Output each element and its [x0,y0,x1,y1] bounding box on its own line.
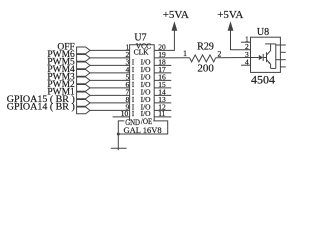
U8 internal bottom link [271,67,276,69]
svg-text:+5VA: +5VA [217,9,243,21]
wire GPIOA15 to U7 pin 8 [90,102,130,104]
resistor R29 zigzag [190,55,216,62]
connector flag PWM5 [77,62,90,69]
svg-text:R29: R29 [197,41,214,52]
svg-text:4504: 4504 [251,73,275,87]
wire PWM6 to U7 pin 2 [90,57,130,59]
connector flag PWM3 [77,77,90,84]
U8 internal right rail [275,44,277,69]
wire U7 pin 14 stub [154,94,171,96]
wire U8 pin 4 stub [241,64,251,66]
wire U7 pin 17 stub [154,72,171,74]
svg-text:U8: U8 [257,27,269,38]
wire U7 pin 13 stub [154,102,171,104]
wire PWM1 to U7 pin 7 [90,94,130,96]
wire U7 pin 11 stub [154,116,171,118]
U8 internal transistor base bar [266,52,268,62]
power +5VA arrow 2 [228,21,234,31]
svg-text:GPIOA14 ( BR ): GPIOA14 ( BR ) [7,101,75,112]
connector flag OFF [77,47,90,54]
U8 internal transistor emitter [267,60,271,69]
wire U8 right pin stub y52.3 [280,51,285,53]
wire PWM3 to U7 pin 5 [90,79,130,81]
U7 bottom section box [118,121,167,134]
U8 internal buffer arrow [259,55,263,60]
connector flag PWM2 [77,85,90,92]
connector flag PWM6 [77,55,90,62]
wire U7 pin 16 stub [154,79,171,81]
U8 internal rail stub top [276,44,281,46]
junction dot at U7 GND [117,133,120,136]
wire U7 pin 10 stub [113,116,130,118]
wire U7 pin 18 stub [154,64,171,66]
wire U7 pin 12 stub [154,109,171,111]
IC U7 GAL16V8 main body [130,45,155,121]
wire U8 pin 1 stub [241,41,251,43]
ground bar symbol [111,147,127,149]
U8 internal base link [263,57,266,59]
wire OFF to U7 pin 1 [90,49,130,51]
U8 internal transistor collector [267,44,271,55]
wire U7 pin 15 stub [154,87,171,89]
wire PWM4 to U7 pin 4 [90,72,130,74]
wire U7 pin20 to +5VA [154,30,174,50]
svg-text:I: I [132,109,135,118]
connector flag PWM4 [77,70,90,77]
svg-text:CLK: CLK [134,47,150,56]
connector flag GPIOA14 [77,107,90,114]
wire GND down [117,134,119,150]
svg-text:2: 2 [217,50,221,59]
wire PWM2 to U7 pin 6 [90,87,130,89]
wire GPIOA14 to U7 pin 9 [90,109,130,111]
svg-text:+5VA: +5VA [163,9,189,21]
svg-text:200: 200 [197,63,214,75]
connector flag GPIOA15 [77,100,90,107]
wire R29 to U8 pin 3 [216,57,251,59]
wire U8 right pin stub y66.9 [280,66,285,68]
svg-text:1: 1 [183,49,187,58]
U8 internal rail stub mid [276,59,281,61]
IC U8 4504 body [251,37,281,72]
wire +5VA to U8 pin 2 [231,30,251,50]
wire U7 pin19 to R29 [154,57,189,59]
wire U8 right pin stub y59.7 [280,59,285,61]
power +5VA arrow 1 [172,21,178,31]
wire PWM5 to U7 pin 3 [90,64,130,66]
wire U8 right pin stub y45.0 [280,44,285,46]
connector flag PWM1 [77,92,90,99]
svg-text:GAL 16V8: GAL 16V8 [124,125,162,135]
U8 internal input line pin 3 [251,57,259,59]
U8 internal top rail [265,43,276,45]
